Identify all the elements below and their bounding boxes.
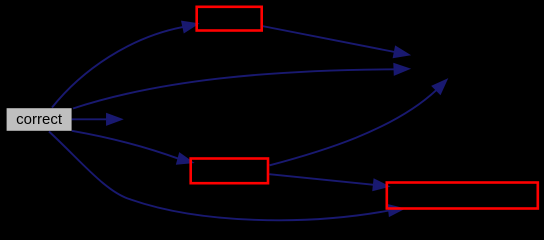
svg-text:correct: correct	[16, 111, 63, 128]
